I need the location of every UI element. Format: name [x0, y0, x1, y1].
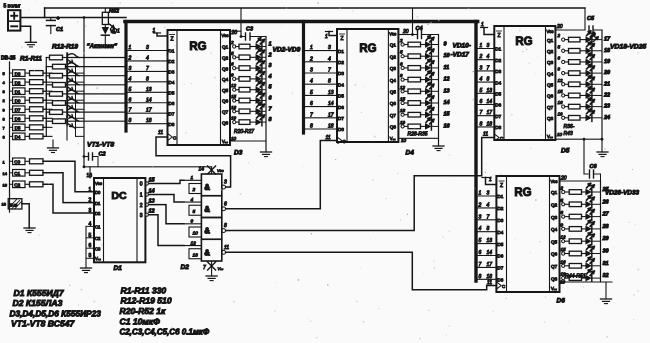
svg-text:D2: D2: [497, 206, 503, 211]
svg-text:“Активн”: “Активн”: [87, 43, 118, 50]
svg-text:1: 1: [191, 175, 194, 181]
svg-text:15: 15: [149, 178, 156, 184]
svg-text:Q8: Q8: [547, 116, 554, 121]
svg-text:20: 20: [560, 176, 567, 182]
svg-text:D4: D4: [495, 80, 501, 85]
svg-text:VD10-: VD10-: [453, 43, 471, 50]
svg-text:D5: D5: [497, 242, 503, 247]
svg-text:D2: D2: [95, 211, 101, 216]
svg-text:2: 2: [128, 55, 132, 61]
svg-text:Q1: Q1: [222, 45, 229, 50]
svg-text:18: 18: [328, 124, 334, 130]
svg-text:3: 3: [480, 65, 483, 71]
capacitor C6: [583, 138, 601, 181]
svg-text:4: 4: [479, 226, 482, 232]
svg-text:6: 6: [224, 201, 227, 207]
svg-text:Q7: Q7: [222, 110, 229, 115]
svg-text:18-25: 18-25: [9, 204, 17, 208]
svg-text:D1: D1: [114, 265, 123, 272]
LEDs VD18-VD25: [586, 31, 612, 121]
svg-text:RG: RG: [189, 41, 206, 53]
svg-text:Z: Z: [170, 37, 173, 43]
svg-text:D2 К155ЛА3: D2 К155ЛА3: [13, 298, 63, 308]
svg-text:VD1: VD1: [110, 29, 120, 35]
svg-text:20: 20: [402, 29, 409, 35]
svg-text:6: 6: [231, 62, 234, 67]
svg-text:7: 7: [310, 112, 313, 118]
svg-text:Q6: Q6: [547, 94, 554, 99]
svg-text:7: 7: [3, 125, 6, 130]
svg-text:R20-R27: R20-R27: [234, 129, 254, 135]
svg-text:7: 7: [480, 110, 483, 116]
svg-text:12: 12: [191, 240, 197, 246]
svg-text:Vₛₛ: Vₛₛ: [218, 266, 224, 271]
svg-text:D2: D2: [181, 264, 190, 271]
svg-text:20: 20: [603, 70, 610, 76]
svg-text:3: 3: [3, 89, 6, 94]
svg-text:1: 1: [153, 28, 156, 34]
svg-text:Q6: Q6: [390, 101, 397, 106]
svg-text:30: 30: [603, 249, 609, 255]
svg-text:R1-R11 330: R1-R11 330: [121, 286, 167, 296]
svg-text:Q4: Q4: [390, 78, 397, 83]
svg-text:10: 10: [231, 136, 237, 141]
svg-text:7: 7: [146, 66, 149, 72]
svg-text:4: 4: [328, 56, 331, 62]
svg-text:8: 8: [310, 124, 313, 130]
wire: D3 clock from D2 gate 1: [156, 130, 231, 187]
wire: matrix rows to bus: [67, 58, 126, 122]
svg-text:D4: D4: [406, 150, 415, 157]
svg-text:C3: C3: [95, 246, 101, 251]
wire: D4 Vcc pin 20 to +5V rail: [398, 8, 414, 36]
svg-text:16: 16: [561, 259, 567, 264]
svg-text:16: 16: [400, 108, 406, 113]
bus taps to D6 inputs: [478, 191, 497, 280]
wire: D2 Vss pin 7 and ground: [203, 261, 224, 276]
svg-text:1: 1: [479, 191, 482, 197]
wire: D5 clock from D2 gate 3: [226, 132, 495, 231]
svg-text:Q1: Q1: [547, 38, 554, 43]
svg-text:9: 9: [191, 219, 194, 225]
resistors R9-R11: [25, 159, 43, 187]
svg-text:Q3: Q3: [390, 66, 397, 71]
DB-25 pin boxes D3..D4: [13, 70, 25, 140]
svg-text:C: C: [502, 284, 505, 289]
decoder D1 (К555ИД7): [87, 173, 156, 272]
wire: D5 LED cathode bus and Vss: [555, 30, 603, 152]
svg-text:10: 10: [557, 132, 563, 137]
wire: D6 LED cathode bus and Vss: [560, 181, 613, 299]
LEDs VD2-VD9: [256, 38, 273, 126]
svg-text:D6: D6: [338, 105, 344, 110]
svg-text:D5: D5: [15, 126, 21, 131]
svg-text:6: 6: [129, 97, 132, 103]
svg-text:5: 5: [561, 198, 564, 203]
svg-text:4: 4: [487, 202, 490, 208]
svg-text:2: 2: [192, 187, 196, 193]
svg-text:3: 3: [146, 45, 149, 51]
svg-text:13: 13: [328, 90, 334, 96]
svg-text:5: 5: [558, 44, 561, 49]
svg-text:8: 8: [224, 223, 227, 229]
svg-text:D3: D3: [495, 69, 501, 74]
svg-text:D7: D7: [169, 111, 175, 116]
svg-text:5: 5: [480, 88, 483, 94]
svg-text:3: 3: [328, 45, 331, 51]
svg-text:2: 2: [309, 56, 313, 62]
svg-text:28: 28: [602, 224, 610, 230]
svg-text:Q3: Q3: [222, 66, 229, 71]
svg-text:6: 6: [558, 55, 561, 60]
svg-text:Q1: Q1: [390, 43, 397, 48]
wire: D6 OE pin 1: [482, 177, 496, 185]
svg-text:13: 13: [444, 88, 450, 94]
svg-text:5 вольт: 5 вольт: [4, 4, 22, 10]
svg-text:D3: D3: [15, 71, 21, 76]
svg-text:8: 8: [479, 274, 482, 280]
svg-text:12: 12: [400, 85, 406, 90]
ground at D5 LEDs: [597, 152, 608, 157]
svg-text:C: C: [500, 136, 503, 141]
wire: D4 LED cathode bus and Vss: [398, 35, 438, 147]
svg-text:D3: D3: [169, 70, 175, 75]
svg-text:32: 32: [603, 273, 609, 279]
resistors R36-R43: [557, 33, 586, 137]
svg-text:D2: D2: [495, 58, 501, 63]
svg-text:1: 1: [480, 43, 483, 49]
svg-text:9: 9: [400, 73, 403, 78]
register D5 (К555ИР23): [494, 26, 569, 155]
svg-text:D5: D5: [338, 94, 344, 99]
svg-text:6: 6: [561, 210, 564, 215]
svg-text:10: 10: [444, 53, 450, 59]
svg-text:29: 29: [602, 236, 610, 242]
svg-text:2: 2: [478, 202, 482, 208]
svg-text:C1 10мкФ: C1 10мкФ: [120, 317, 161, 327]
wire: D3 OE pin 1: [153, 28, 168, 36]
svg-text:15: 15: [561, 247, 567, 252]
svg-text:18: 18: [2, 202, 7, 207]
svg-text:D1: D1: [497, 194, 503, 199]
svg-text:1: 1: [481, 22, 484, 28]
svg-text:1: 1: [129, 45, 132, 51]
svg-text:Q2: Q2: [547, 49, 554, 54]
svg-text:2: 2: [557, 33, 561, 38]
svg-text:8: 8: [328, 79, 331, 85]
svg-text:Q8: Q8: [551, 276, 558, 281]
svg-text:9: 9: [3, 107, 6, 112]
svg-text:15: 15: [231, 94, 237, 99]
svg-text:7: 7: [203, 265, 206, 271]
svg-text:D2: D2: [15, 80, 21, 85]
svg-text:Q3: Q3: [547, 60, 554, 65]
svg-text:D8: D8: [338, 127, 344, 132]
svg-text:12: 12: [149, 209, 155, 215]
svg-text:D7: D7: [497, 266, 503, 271]
svg-text:8: 8: [3, 116, 6, 121]
DB-25 ground pins box (18-25): [8, 199, 35, 233]
svg-text:C2: C2: [14, 183, 20, 188]
svg-text:5: 5: [3, 71, 6, 76]
svg-text:Q2: Q2: [551, 203, 558, 208]
svg-text:21: 21: [603, 81, 610, 87]
svg-text:Q7: Q7: [551, 264, 558, 269]
svg-text:C2: C2: [95, 236, 101, 241]
svg-text:10: 10: [193, 231, 199, 237]
svg-text:D2: D2: [169, 59, 175, 64]
svg-text:6: 6: [269, 96, 273, 102]
svg-text:D3,D4,D5,D6 К555ИР23: D3,D4,D5,D6 К555ИР23: [10, 309, 102, 319]
svg-text:Q2: Q2: [222, 56, 229, 61]
svg-text:D8: D8: [495, 125, 501, 130]
svg-text:4: 4: [3, 80, 6, 85]
svg-text:Z: Z: [340, 36, 343, 42]
svg-text:Q5: Q5: [551, 239, 558, 244]
label Активн: [87, 43, 118, 50]
ground at D6 LEDs: [601, 299, 612, 304]
svg-text:4: 4: [191, 197, 194, 203]
svg-text:19: 19: [604, 59, 611, 65]
svg-text:7: 7: [269, 106, 273, 112]
svg-text:D1 К555ИД7: D1 К555ИД7: [14, 288, 65, 298]
svg-text:C4: C4: [416, 26, 423, 32]
svg-text:17: 17: [487, 262, 493, 268]
svg-text:D4: D4: [497, 230, 503, 235]
ground at D4 LEDs: [433, 146, 444, 151]
svg-text:&: &: [204, 227, 210, 236]
svg-text:6: 6: [479, 250, 482, 256]
svg-text:13: 13: [487, 238, 493, 244]
svg-text:D5: D5: [495, 92, 501, 97]
svg-text:4: 4: [129, 76, 132, 82]
svg-text:Q5: Q5: [390, 90, 397, 95]
register D6 (К555ИР23): [496, 176, 565, 305]
svg-text:2: 2: [479, 54, 483, 60]
NAND gates D2 (К155ЛА3): [181, 174, 230, 271]
svg-text:7: 7: [487, 214, 490, 220]
svg-text:1: 1: [269, 42, 272, 48]
svg-text:Vₛₛ: Vₛₛ: [95, 256, 101, 261]
wire: D2 Vcc pin 14: [199, 166, 224, 174]
svg-text:4: 4: [146, 55, 149, 61]
DB-25 pin boxes C0..C2: [13, 158, 25, 188]
svg-text:2: 2: [560, 186, 564, 191]
svg-text:Vᴄᴄ: Vᴄᴄ: [95, 181, 102, 186]
svg-text:D7: D7: [15, 107, 21, 112]
capacitor C1: [47, 16, 64, 34]
svg-text:20: 20: [556, 24, 563, 30]
svg-text:5: 5: [400, 50, 403, 55]
svg-text:14: 14: [149, 189, 155, 195]
svg-text:8: 8: [487, 77, 490, 83]
ground at D1: [81, 268, 92, 273]
svg-text:DC: DC: [111, 190, 127, 202]
svg-text:2: 2: [230, 40, 234, 45]
LED VD1: [101, 24, 120, 47]
svg-text:18: 18: [487, 121, 493, 127]
svg-text:27: 27: [602, 212, 610, 218]
svg-text:R12-R19 510: R12-R19 510: [121, 296, 172, 306]
wire: D4 clock from D2 gate 2: [226, 135, 337, 209]
ground at power connector: [20, 26, 36, 47]
svg-text:D8: D8: [169, 122, 175, 127]
svg-text:8: 8: [480, 121, 483, 127]
wire: D4 OE pin 1: [325, 32, 337, 41]
svg-text:1: 1: [489, 177, 492, 183]
svg-text:VT1-VT8 ВС547: VT1-VT8 ВС547: [11, 319, 76, 329]
svg-text:3: 3: [224, 180, 227, 186]
svg-text:4: 4: [310, 79, 313, 85]
wire: D3 LED cathode bus and Vss: [230, 37, 266, 153]
svg-text:6: 6: [3, 134, 6, 139]
svg-text:C0: C0: [14, 160, 20, 165]
svg-text:Q6: Q6: [222, 99, 229, 104]
svg-text:1: 1: [310, 45, 313, 51]
svg-text:9: 9: [561, 222, 564, 227]
svg-text:D6: D6: [557, 298, 566, 305]
svg-text:2: 2: [3, 98, 6, 103]
svg-text:4: 4: [268, 74, 272, 80]
svg-text:R1-R11: R1-R11: [20, 56, 42, 63]
svg-text:Q8: Q8: [390, 125, 397, 130]
svg-text:Vₛₛ: Vₛₛ: [390, 136, 396, 141]
svg-text:D1: D1: [95, 201, 101, 206]
svg-text:15: 15: [400, 97, 406, 102]
svg-text:11: 11: [158, 130, 163, 136]
svg-text:3: 3: [487, 191, 490, 197]
svg-text:5: 5: [129, 87, 132, 93]
svg-text:11: 11: [444, 65, 450, 71]
wire: +5V to D1 Vcc and D2 Vcc: [83, 165, 212, 178]
ground under resistor network: [48, 140, 59, 153]
svg-text:16: 16: [87, 173, 93, 179]
svg-text:16: 16: [3, 182, 8, 187]
svg-text:13: 13: [146, 87, 152, 93]
svg-text:4: 4: [480, 77, 483, 83]
svg-text:Vᴄᴄ: Vᴄᴄ: [389, 32, 396, 37]
svg-text:&: &: [204, 183, 210, 192]
svg-text:D5: D5: [561, 148, 570, 155]
svg-text:7: 7: [487, 65, 490, 71]
svg-text:1: 1: [325, 34, 328, 40]
svg-text:RG: RG: [515, 36, 532, 48]
capacitor C2: [83, 152, 106, 167]
wires: D1 outputs to D2 inputs: [149, 180, 184, 245]
svg-text:5: 5: [193, 209, 196, 215]
label R12-R19: [52, 44, 78, 51]
svg-text:5: 5: [269, 85, 273, 91]
svg-text:D8: D8: [497, 278, 503, 283]
capacitor C4: [413, 26, 439, 39]
svg-text:6: 6: [480, 99, 483, 105]
svg-text:14: 14: [444, 100, 450, 106]
svg-text:Q1: Q1: [551, 190, 558, 195]
svg-text:3: 3: [479, 214, 482, 220]
svg-text:Vᴄᴄ: Vᴄᴄ: [217, 168, 224, 173]
wire: D6 clock from D2 gate 4: [226, 252, 497, 289]
svg-text:C6: C6: [590, 164, 598, 170]
bus taps to D5 inputs: [478, 43, 495, 127]
svg-text:Vᴄᴄ: Vᴄᴄ: [551, 179, 558, 184]
svg-text:+: +: [57, 16, 60, 22]
svg-text:17: 17: [328, 112, 334, 118]
svg-text:1: 1: [140, 193, 143, 199]
svg-text:14: 14: [146, 97, 152, 103]
resistors R20-R27: [230, 40, 256, 141]
svg-text:Q5: Q5: [547, 82, 554, 87]
svg-text:C1: C1: [95, 225, 101, 230]
power connector X1 (5 вольт): [4, 4, 22, 31]
svg-text:C1: C1: [14, 171, 20, 176]
svg-text:16: 16: [231, 105, 237, 110]
svg-text:9: 9: [444, 42, 448, 48]
wire: vertical node line x=67: [66, 57, 68, 140]
svg-text:7: 7: [479, 262, 482, 268]
svg-text:DB-25: DB-25: [1, 56, 16, 62]
resistors R1-R8: [25, 71, 52, 139]
svg-text:0: 0: [140, 182, 143, 188]
svg-text:D6: D6: [495, 103, 501, 108]
svg-text:23: 23: [603, 104, 610, 110]
svg-text:22: 22: [603, 92, 610, 98]
svg-text:D0: D0: [15, 98, 21, 103]
svg-text:13: 13: [193, 252, 199, 258]
svg-text:18: 18: [146, 118, 152, 124]
svg-text:2: 2: [268, 52, 272, 58]
svg-text:3: 3: [487, 43, 490, 49]
svg-text:D5: D5: [169, 91, 175, 96]
svg-text:19: 19: [400, 120, 406, 125]
svg-text:R43: R43: [564, 131, 573, 137]
svg-text:C: C: [343, 139, 346, 144]
svg-text:&: &: [204, 248, 210, 257]
svg-text:12: 12: [444, 77, 450, 83]
svg-text:16: 16: [558, 100, 564, 105]
svg-text:7: 7: [328, 68, 331, 74]
svg-text:R20-R52 1к: R20-R52 1к: [120, 306, 167, 316]
svg-text:6: 6: [400, 61, 403, 66]
svg-text:VD18-VD25: VD18-VD25: [610, 44, 646, 51]
wires: C0-C2 to decoder inputs: [43, 161, 94, 213]
svg-text:14: 14: [328, 101, 334, 107]
svg-text:VD2-VD9: VD2-VD9: [273, 47, 301, 54]
svg-text:C2,C3,C4,C5,C6 0.1мкФ: C2,C3,C4,C5,C6 0.1мкФ: [120, 328, 210, 337]
svg-text:D4: D4: [338, 82, 344, 87]
svg-text:19: 19: [231, 116, 237, 121]
svg-text:D0: D0: [95, 190, 101, 195]
data bus (thick): [125, 22, 478, 282]
resistors R12-R19: [43, 55, 67, 136]
svg-text:8: 8: [269, 117, 273, 123]
svg-text:R28-R35: R28-R35: [408, 132, 428, 138]
wire: D5 OE pin 1: [481, 22, 495, 35]
svg-text:R52: R52: [109, 9, 119, 15]
svg-text:4: 4: [487, 54, 490, 60]
svg-text:Vₛₛ: Vₛₛ: [222, 139, 228, 144]
svg-text:5: 5: [310, 90, 313, 96]
svg-text:6: 6: [310, 101, 313, 107]
svg-text:13: 13: [487, 88, 493, 94]
wire: D3 Vcc pin 20 to +5V rail: [230, 8, 242, 38]
svg-text:C5: C5: [587, 16, 595, 22]
svg-text:R12-R19: R12-R19: [52, 44, 78, 51]
svg-text:26: 26: [602, 199, 610, 205]
svg-text:Q2: Q2: [390, 54, 397, 59]
svg-text:VT1-VT8: VT1-VT8: [87, 142, 114, 149]
svg-text:R36-: R36-: [564, 124, 575, 130]
svg-text:8: 8: [129, 118, 132, 124]
